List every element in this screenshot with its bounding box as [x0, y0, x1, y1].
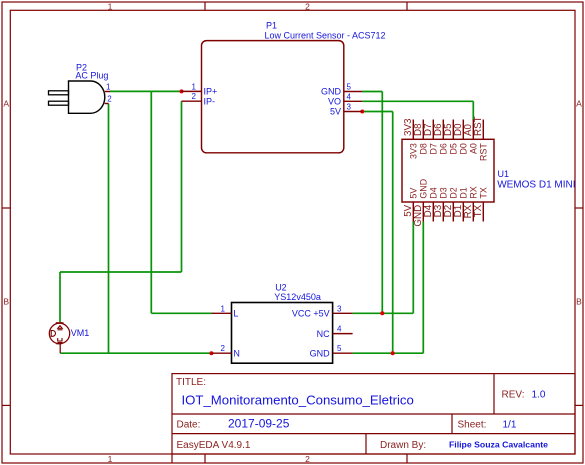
wire U2.GND right: [353, 352, 424, 354]
svg-text:1/1: 1/1: [503, 420, 517, 431]
svg-text:B: B: [576, 297, 582, 307]
svg-text:RST: RST: [473, 116, 484, 136]
svg-text:1: 1: [108, 454, 113, 464]
svg-text:5: 5: [347, 83, 352, 92]
svg-text:TX: TX: [473, 204, 484, 217]
junction GND net on VCC row: [380, 311, 384, 315]
module U1 WEMOS D1 MINI body: [402, 139, 494, 202]
svg-text:3: 3: [347, 103, 352, 112]
P2 pin 2 stub: [105, 103, 109, 105]
wire to U2.L: [151, 312, 211, 314]
U1 top pin names inside: [409, 143, 489, 161]
P1 pins left: [182, 91, 202, 101]
svg-text:1: 1: [192, 82, 197, 91]
svg-text:TITLE:: TITLE:: [176, 377, 206, 388]
svg-text:GND: GND: [310, 348, 331, 358]
svg-text:2017-09-25: 2017-09-25: [228, 417, 290, 431]
wire P1.VO right: [362, 100, 473, 102]
svg-text:Sheet:: Sheet:: [458, 420, 487, 431]
svg-text:L: L: [233, 309, 238, 319]
svg-text:Filipe Souza Cavalcante: Filipe Souza Cavalcante: [449, 440, 548, 450]
junction at P1.IP+: [180, 89, 184, 93]
wire up to U1.GND: [422, 222, 424, 354]
svg-text:D4: D4: [429, 187, 439, 198]
P1 pin numbers: [192, 82, 352, 111]
P1 pin names: [204, 87, 342, 117]
wire VM1 bottom to U2.N: [60, 352, 211, 354]
svg-text:1: 1: [221, 304, 226, 313]
U1 top pin numbers outside: [403, 116, 484, 136]
svg-text:1: 1: [106, 83, 111, 92]
svg-text:4: 4: [337, 325, 342, 334]
U1 top pins: [413, 120, 483, 140]
svg-text:RX: RX: [469, 186, 479, 198]
svg-text:Low Current Sensor - ACS712: Low Current Sensor - ACS712: [265, 31, 386, 41]
wire P1.IP- down: [181, 101, 183, 272]
VM1 internal marks: [51, 326, 62, 343]
svg-text:D0: D0: [459, 143, 469, 154]
svg-text:5: 5: [337, 344, 342, 353]
wire 5V down: [392, 112, 394, 354]
svg-text:EasyEDA V4.9.1: EasyEDA V4.9.1: [177, 440, 251, 451]
meter VM1 body: [49, 323, 69, 353]
title block: [172, 374, 575, 463]
svg-text:P1: P1: [266, 20, 277, 30]
svg-text:2: 2: [107, 94, 112, 103]
wire IP- net horizontal: [60, 271, 182, 273]
U1 bottom pin numbers outside: [403, 204, 484, 226]
wire VO down to U1.A0: [472, 101, 474, 120]
svg-text:A: A: [3, 99, 9, 109]
P2 pin numbers: [106, 83, 112, 104]
svg-text:IP+: IP+: [204, 87, 218, 97]
svg-text:TX: TX: [479, 187, 489, 198]
wire P1.GND down: [381, 92, 383, 314]
P2 pin 1 stub: [105, 91, 110, 93]
svg-text:VCC +5V: VCC +5V: [292, 309, 330, 319]
svg-text:2: 2: [221, 344, 226, 353]
svg-text:D5: D5: [449, 143, 459, 154]
svg-text:D8: D8: [419, 143, 429, 154]
wire P2.1 to P1.IP+: [110, 90, 182, 92]
svg-text:5V: 5V: [409, 188, 419, 199]
svg-text:2: 2: [305, 2, 310, 12]
svg-text:REV:: REV:: [502, 390, 525, 401]
svg-text:RST: RST: [479, 143, 489, 161]
junction at U2.N: [209, 351, 213, 355]
svg-text:VM1: VM1: [71, 328, 90, 338]
P2 prong 2: [49, 101, 69, 105]
U2 pin 3 stub: [333, 312, 353, 314]
svg-text:D2: D2: [449, 187, 459, 198]
svg-text:2: 2: [305, 454, 310, 464]
svg-text:2: 2: [192, 92, 197, 101]
svg-text:1.0: 1.0: [532, 390, 546, 401]
svg-text:D1: D1: [459, 187, 469, 198]
svg-text:YS12v450a: YS12v450a: [274, 292, 321, 302]
svg-text:GND: GND: [321, 87, 342, 97]
U2 pin names: [233, 309, 330, 359]
svg-text:3V3: 3V3: [409, 143, 419, 159]
wire P1.GND right: [362, 91, 382, 93]
U2 pin 1 stub: [212, 312, 232, 314]
U1 bottom pins: [413, 202, 483, 222]
svg-text:IP-: IP-: [204, 96, 216, 106]
module U2 YS12v450a body: [232, 303, 333, 364]
svg-text:Date:: Date:: [177, 420, 201, 431]
svg-text:A0: A0: [469, 143, 479, 154]
svg-text:B: B: [3, 297, 9, 307]
svg-text:D3: D3: [439, 187, 449, 198]
svg-text:IOT_Monitoramento_Consumo_Elet: IOT_Monitoramento_Consumo_Eletrico: [182, 392, 414, 407]
svg-text:VO: VO: [328, 97, 341, 107]
U2 pin 4 stub NC: [333, 333, 353, 335]
svg-text:D7: D7: [429, 143, 439, 154]
junction at P1.5V: [360, 110, 364, 114]
wire drop to U2.L: [150, 91, 152, 313]
svg-text:4: 4: [347, 92, 352, 101]
wire down to VM1 top: [59, 272, 61, 322]
connector P2 AC Plug body: [69, 81, 105, 113]
P2 prong 1: [49, 91, 69, 95]
U2 pin 2 stub: [211, 352, 231, 354]
U2 pin 5 stub: [333, 352, 353, 354]
U1 bottom pin names inside: [409, 179, 489, 199]
svg-text:Drawn By:: Drawn By:: [380, 440, 426, 451]
svg-text:NC: NC: [317, 329, 330, 339]
svg-text:WEMOS D1 MINI: WEMOS D1 MINI: [497, 179, 575, 190]
svg-text:U1: U1: [498, 169, 510, 179]
svg-text:D6: D6: [439, 143, 449, 154]
wire up to U1.5V: [412, 222, 414, 314]
junction 5V net on GND row: [391, 351, 395, 355]
wire P1.5V right: [362, 111, 392, 113]
svg-text:AC Plug: AC Plug: [75, 71, 108, 81]
U2 pin numbers: [221, 304, 342, 353]
svg-text:5V: 5V: [330, 107, 341, 117]
svg-text:A: A: [576, 99, 582, 109]
wire P2.2 down to N net: [108, 104, 110, 354]
svg-text:1: 1: [108, 2, 113, 12]
svg-text:GND: GND: [419, 179, 429, 199]
svg-text:N: N: [233, 348, 240, 358]
P1 pins right: [344, 92, 363, 112]
wire U2.VCC right: [353, 312, 414, 314]
svg-text:3: 3: [337, 304, 342, 313]
connector P1 Low Current Sensor ACS712 body: [202, 41, 344, 153]
svg-text:U2: U2: [275, 283, 287, 293]
